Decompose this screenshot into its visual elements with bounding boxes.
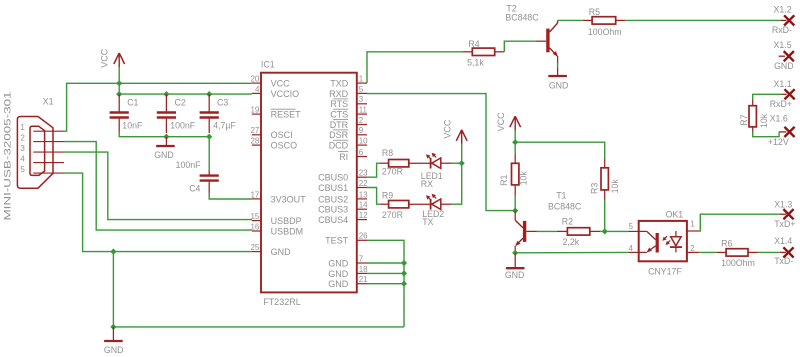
svg-text:R4: R4 xyxy=(468,39,479,49)
svg-text:TxD-: TxD- xyxy=(774,256,793,266)
svg-text:2: 2 xyxy=(690,244,695,253)
ground GND bottom-left xyxy=(112,327,114,340)
pin 1 OK1 xyxy=(687,230,699,232)
svg-text:R6: R6 xyxy=(721,239,732,249)
svg-text:9: 9 xyxy=(359,126,364,135)
pin 14 CBUS3 xyxy=(357,208,367,210)
node GND branch xyxy=(110,249,116,255)
wire CBUS1 to R9 xyxy=(367,188,379,205)
svg-text:GND: GND xyxy=(328,269,349,279)
svg-text:27: 27 xyxy=(250,126,259,135)
svg-text:VCCIO: VCCIO xyxy=(271,89,300,99)
svg-text:1: 1 xyxy=(359,75,364,84)
svg-text:100nF: 100nF xyxy=(170,120,196,130)
svg-text:C1: C1 xyxy=(127,97,138,107)
svg-text:TEST: TEST xyxy=(325,236,349,246)
svg-text:R7: R7 xyxy=(739,114,749,125)
wire X1.1 to R7 xyxy=(753,94,782,99)
resistor R1 10k xyxy=(514,142,516,154)
svg-text:CBUS2: CBUS2 xyxy=(318,194,348,204)
svg-text:11: 11 xyxy=(359,106,368,115)
wire OK1 pin2 to R6 xyxy=(699,251,716,253)
wire USB D+ pin3 to USBDP pin15 xyxy=(64,152,252,220)
power VCC symbol top-left xyxy=(118,53,120,68)
svg-text:VCC: VCC xyxy=(100,48,110,68)
wire VBUS: USB pin1 to VCC rail xyxy=(64,83,252,131)
svg-text:GND: GND xyxy=(774,61,794,71)
svg-text:3V3OUT: 3V3OUT xyxy=(271,194,307,204)
svg-text:OK1: OK1 xyxy=(666,210,684,220)
node R2 R3 OK1 xyxy=(602,228,608,234)
wire TXD to R4 xyxy=(367,52,463,83)
svg-text:CNY17F: CNY17F xyxy=(648,267,682,277)
svg-text:T1: T1 xyxy=(556,191,566,201)
svg-text:10k: 10k xyxy=(518,171,528,186)
pin X1.6 +12V xyxy=(779,131,786,133)
svg-text:270R: 270R xyxy=(382,210,403,220)
pin 28 OSCO xyxy=(252,144,261,146)
svg-text:2: 2 xyxy=(359,116,364,125)
svg-text:X1.1: X1.1 xyxy=(774,79,792,89)
svg-text:RxD+: RxD+ xyxy=(770,99,792,109)
svg-text:VCC: VCC xyxy=(271,79,291,89)
capacitor C2 xyxy=(165,94,167,112)
connector X1 inner shell xyxy=(30,126,45,175)
wire T1 emitter to OK1 pin4 xyxy=(515,251,628,253)
svg-text:10k: 10k xyxy=(759,113,769,128)
svg-text:X1.6: X1.6 xyxy=(770,113,788,123)
svg-text:22: 22 xyxy=(359,179,368,188)
svg-text:21: 21 xyxy=(359,275,368,284)
svg-text:CTS: CTS xyxy=(330,110,348,120)
wire OK1 pin1 to X1.3 xyxy=(699,214,779,231)
node C2 top xyxy=(163,91,169,97)
svg-text:CBUS0: CBUS0 xyxy=(318,173,348,183)
svg-text:R1: R1 xyxy=(499,175,509,186)
svg-text:5: 5 xyxy=(20,165,25,174)
pin X1.4 TxD- xyxy=(780,251,786,253)
svg-text:C4: C4 xyxy=(189,183,200,193)
svg-text:6: 6 xyxy=(359,148,364,157)
pin X1.3 TxD+ xyxy=(780,213,786,215)
svg-text:R8: R8 xyxy=(382,148,393,158)
IC IC1 FT232RL body xyxy=(261,73,357,293)
wire GND pin7 xyxy=(367,262,404,264)
pin 26 TEST xyxy=(357,239,367,241)
pin 4 VCCIO xyxy=(252,92,261,94)
svg-text:5: 5 xyxy=(629,222,634,231)
pin 18 GND xyxy=(357,272,367,274)
svg-text:BC848C: BC848C xyxy=(505,13,539,23)
svg-text:GND: GND xyxy=(104,345,124,355)
pin 25 GND xyxy=(252,251,261,253)
svg-text:4,7µF: 4,7µF xyxy=(213,121,236,131)
svg-text:+12V: +12V xyxy=(768,137,789,147)
pin 7 GND xyxy=(357,262,367,264)
svg-text:19: 19 xyxy=(250,106,259,115)
svg-text:CBUS1: CBUS1 xyxy=(318,183,348,193)
svg-text:TxD+: TxD+ xyxy=(774,219,795,229)
pin 27 OSCI xyxy=(252,134,261,136)
svg-text:R9: R9 xyxy=(382,191,393,201)
pin 21 GND xyxy=(357,283,367,285)
svg-text:GND: GND xyxy=(328,279,349,289)
capacitor C3 xyxy=(208,94,210,112)
svg-text:2,2k: 2,2k xyxy=(563,237,580,247)
resistor R3 10k xyxy=(604,159,606,168)
svg-text:100Ohm: 100Ohm xyxy=(721,258,755,268)
OK1 LED xyxy=(675,231,677,237)
svg-text:GND: GND xyxy=(271,247,292,257)
LED LED1 RX xyxy=(430,158,432,169)
svg-text:12: 12 xyxy=(359,211,368,220)
svg-text:C2: C2 xyxy=(175,97,186,107)
svg-text:4: 4 xyxy=(629,244,634,253)
svg-text:GND: GND xyxy=(505,270,525,280)
pin X1-1 xyxy=(33,130,64,132)
wire R6 to X1.4 xyxy=(758,251,780,253)
resistor R2 2,2k xyxy=(557,230,567,232)
wire RXD to T1 collector node xyxy=(367,94,515,211)
node VCC rail T1 xyxy=(512,139,518,145)
svg-text:GND: GND xyxy=(549,81,569,91)
pin 23 CBUS0 xyxy=(357,176,367,178)
power VCC above R1 xyxy=(514,116,516,131)
pin 11 CTS xyxy=(357,113,367,115)
svg-text:RESET: RESET xyxy=(271,110,302,120)
svg-text:USBDP: USBDP xyxy=(271,216,302,226)
svg-text:OSCI: OSCI xyxy=(271,130,293,140)
pin X1-3 xyxy=(33,151,64,153)
pin 2 OK1 xyxy=(687,251,699,253)
wire LED1 to VCC node xyxy=(452,162,462,164)
svg-text:4: 4 xyxy=(20,154,25,163)
svg-text:R5: R5 xyxy=(589,7,600,17)
svg-text:R3: R3 xyxy=(589,183,599,194)
resistor R4 xyxy=(463,51,472,53)
power VCC above LEDs xyxy=(461,130,463,145)
OK1 phototransistor xyxy=(639,230,647,232)
svg-text:25: 25 xyxy=(250,243,259,252)
pin X1-5 xyxy=(33,172,64,174)
resistor R8 270R xyxy=(379,162,388,164)
capacitor C1 xyxy=(118,94,120,112)
pin 22 CBUS1 xyxy=(357,187,367,189)
pin 2 DTR xyxy=(357,124,367,126)
pin 12 CBUS4 xyxy=(357,219,367,221)
OK1 light arrows xyxy=(663,236,667,240)
svg-text:18: 18 xyxy=(359,265,368,274)
wire capacitor bottom rail xyxy=(119,131,209,137)
svg-text:4: 4 xyxy=(255,85,260,94)
wire R3 to base node xyxy=(604,200,606,232)
svg-text:GND: GND xyxy=(154,150,174,160)
svg-text:MINI-USB-32005-301: MINI-USB-32005-301 xyxy=(2,92,12,221)
svg-text:DSR: DSR xyxy=(329,130,349,140)
svg-text:20: 20 xyxy=(250,75,259,84)
wire R5 to X1.2 xyxy=(625,19,780,21)
svg-text:23: 23 xyxy=(359,169,368,178)
svg-text:17: 17 xyxy=(250,190,259,199)
svg-text:CBUS4: CBUS4 xyxy=(318,215,348,225)
transistor T1 BC848C xyxy=(514,211,516,221)
wire TEST pin26 to ground column xyxy=(367,240,404,327)
wire GND pin18 xyxy=(367,272,404,274)
svg-text:X1.4: X1.4 xyxy=(774,236,792,246)
ground GND under T2 xyxy=(557,68,559,75)
svg-text:10nF: 10nF xyxy=(122,120,143,130)
svg-text:16: 16 xyxy=(250,222,259,231)
wire CBUS0 to R8 xyxy=(367,163,379,177)
pin 9 DSR xyxy=(357,134,367,136)
svg-text:X1: X1 xyxy=(43,97,54,107)
svg-text:1: 1 xyxy=(20,123,25,132)
svg-text:X1.5: X1.5 xyxy=(774,40,792,50)
optocoupler OK1 CNY17F body xyxy=(639,221,687,261)
svg-text:X1.2: X1.2 xyxy=(774,4,792,14)
wire bottom ground rail xyxy=(113,326,404,328)
svg-text:28: 28 xyxy=(250,137,259,146)
pin X1-2 xyxy=(33,141,64,143)
pin 20 VCC xyxy=(252,82,261,84)
svg-text:270R: 270R xyxy=(382,167,403,177)
svg-text:FT232RL: FT232RL xyxy=(263,297,301,307)
wire T1 base to R2 xyxy=(537,230,557,232)
pin 10 DCD xyxy=(357,144,367,146)
pin X1.2 RxD- xyxy=(780,19,786,21)
svg-text:100Ohm: 100Ohm xyxy=(588,27,622,37)
LED LED2 TX xyxy=(430,199,432,210)
svg-text:14: 14 xyxy=(359,201,368,210)
svg-text:10: 10 xyxy=(359,137,368,146)
wire T2 collector to R5 xyxy=(558,19,583,21)
svg-text:C3: C3 xyxy=(217,97,228,107)
resistor R9 270R xyxy=(379,203,388,205)
wire node to OK1 pin5 xyxy=(605,230,629,232)
pin 15 USBDP xyxy=(252,220,261,222)
svg-text:1: 1 xyxy=(690,220,695,229)
svg-text:5,1k: 5,1k xyxy=(467,58,484,68)
svg-text:RTS: RTS xyxy=(330,99,348,109)
pin X1.5 GND xyxy=(779,55,785,57)
svg-text:3: 3 xyxy=(20,144,25,153)
pin 16 USBDM xyxy=(252,230,261,232)
pin 13 CBUS2 xyxy=(357,198,367,200)
pin 5 OK1 xyxy=(629,230,639,232)
svg-text:3: 3 xyxy=(359,95,364,104)
svg-text:CBUS3: CBUS3 xyxy=(318,205,348,215)
svg-text:DCD: DCD xyxy=(329,141,349,151)
svg-text:R2: R2 xyxy=(562,217,573,227)
svg-text:RX: RX xyxy=(421,179,433,189)
svg-text:VCC: VCC xyxy=(442,119,452,139)
wire C4 to 3V3OUT pin 17 xyxy=(209,193,252,200)
pin 17 3V3OUT xyxy=(252,198,261,200)
svg-text:DTR: DTR xyxy=(330,120,349,130)
svg-text:5: 5 xyxy=(359,85,364,94)
svg-text:GND: GND xyxy=(328,258,349,268)
ground GND under C2 xyxy=(165,137,167,145)
resistor R5 xyxy=(583,19,592,21)
svg-text:BC848C: BC848C xyxy=(548,202,582,212)
wire GND down to bottom rail xyxy=(112,252,114,327)
wire VCC rail to R3 xyxy=(515,142,605,158)
svg-text:2: 2 xyxy=(20,133,25,142)
wire R4 to T2 base xyxy=(504,41,536,52)
svg-text:OSCO: OSCO xyxy=(271,141,298,151)
pin 1 TXD xyxy=(357,82,367,84)
svg-text:RI: RI xyxy=(339,152,348,162)
pin 5 RXD xyxy=(357,92,367,94)
svg-text:26: 26 xyxy=(359,232,368,241)
ground GND under T1 xyxy=(514,253,516,267)
svg-text:10k: 10k xyxy=(610,179,620,194)
node T1 emitter xyxy=(512,250,518,256)
pin 19 RESET xyxy=(252,113,261,115)
wire GND pin21 xyxy=(367,283,404,285)
svg-text:RXD: RXD xyxy=(329,89,349,99)
svg-text:IC1: IC1 xyxy=(261,60,275,70)
svg-text:X1.3: X1.3 xyxy=(774,200,792,210)
pin 3 RTS xyxy=(357,103,367,105)
capacitor C4 xyxy=(208,137,210,170)
transistor T2 BC848C xyxy=(536,40,546,42)
wire VCCIO rail to IC pin 4 xyxy=(119,83,252,94)
node VCC junction at C1 column xyxy=(116,80,122,86)
wire USB GND pin5 to IC pin25 xyxy=(64,173,252,252)
wire LED2 up to VCC node xyxy=(452,163,462,204)
svg-text:TX: TX xyxy=(422,217,433,227)
wire T2 emitter to GND xyxy=(557,63,559,69)
node T1 collector xyxy=(512,208,518,214)
pin X1-4 xyxy=(33,162,64,164)
svg-text:RxD-: RxD- xyxy=(772,25,792,35)
node C3 top xyxy=(206,91,212,97)
wire R2 to node xyxy=(600,230,605,232)
pin 6 RI xyxy=(357,156,367,158)
wire USB D- pin2 to USBDM pin16 xyxy=(64,142,252,231)
svg-text:100nF: 100nF xyxy=(176,160,202,170)
svg-text:USBDM: USBDM xyxy=(271,226,304,236)
svg-text:TXD: TXD xyxy=(330,79,349,89)
resistor R7 10k xyxy=(752,100,754,106)
svg-text:13: 13 xyxy=(359,190,368,199)
svg-text:7: 7 xyxy=(359,254,364,263)
pin X1.1 RxD+ xyxy=(782,93,787,95)
svg-text:VCC: VCC xyxy=(496,112,506,132)
connector X1 MINI-USB outer shell xyxy=(17,117,53,189)
wire R7 to X1.6 xyxy=(753,131,779,137)
svg-text:15: 15 xyxy=(250,212,259,221)
pin 4 OK1 xyxy=(629,251,639,253)
resistor R6 100Ohm xyxy=(717,251,727,253)
